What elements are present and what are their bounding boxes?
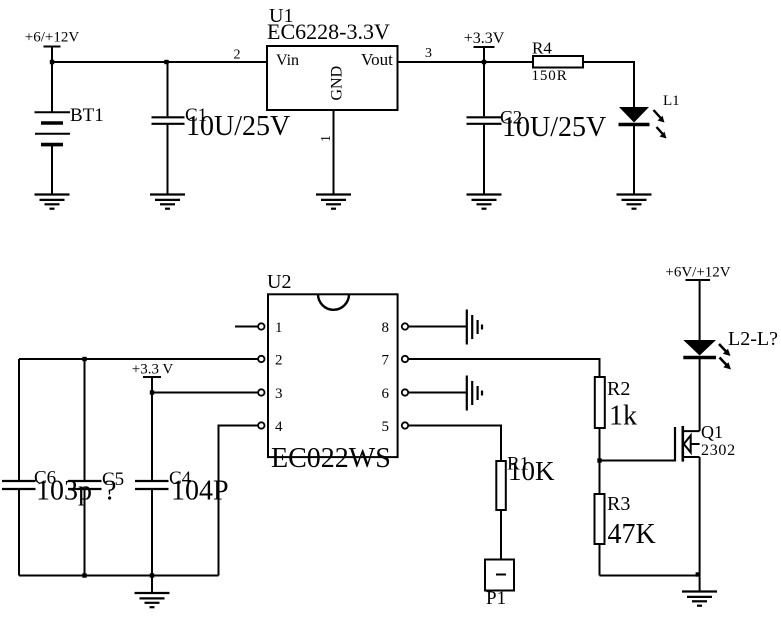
wire U1 GND pin <box>333 110 335 194</box>
ground (L1) <box>617 195 652 209</box>
svg-text:10U/25V: 10U/25V <box>186 111 290 142</box>
capacitor C5 <box>68 359 124 576</box>
IC U2 EC022WS <box>267 271 398 474</box>
pin 6 circle <box>402 389 408 395</box>
pin 1 circle <box>258 323 264 329</box>
wire pin1 stub <box>235 326 258 328</box>
wire gate <box>600 460 676 462</box>
svg-text:U2: U2 <box>267 271 291 293</box>
svg-text:GND: GND <box>329 66 346 101</box>
svg-text:10K: 10K <box>508 456 555 486</box>
wire pin5 to R1 <box>408 426 501 462</box>
svg-text:6: 6 <box>382 386 390 402</box>
svg-text:47K: 47K <box>608 519 656 550</box>
node bottom bus C4/gnd <box>150 573 154 577</box>
wire pin8 to ground <box>408 326 467 328</box>
node C1 junction <box>164 60 168 64</box>
pin 3 circle <box>258 389 264 395</box>
node battery junction <box>50 60 54 64</box>
power +3.3V (top) <box>464 30 505 62</box>
svg-text:+3.3 V: +3.3 V <box>132 362 174 378</box>
connector P1 <box>485 560 514 610</box>
node bottom bus C5 <box>82 573 86 577</box>
battery BT1 <box>35 62 104 194</box>
wire gnd stub bottom-left <box>151 576 153 594</box>
LED L2 <box>683 328 778 431</box>
wire bottom left bus <box>19 575 219 577</box>
pin 2 circle <box>258 356 264 362</box>
wire pin2 to left rail <box>19 358 258 360</box>
svg-text:5: 5 <box>382 419 390 435</box>
svg-text:R3: R3 <box>607 493 630 515</box>
svg-text:1: 1 <box>319 135 334 142</box>
wire R4 to LED corner <box>583 62 634 107</box>
capacitor C4 <box>135 393 229 576</box>
ground (pin8, sideways) <box>467 310 482 345</box>
node source/ground junction <box>696 572 700 576</box>
svg-text:1: 1 <box>275 320 283 336</box>
node +3.3V junction <box>482 60 486 64</box>
power +6/+12V <box>25 30 80 63</box>
capacitor C2 <box>467 62 607 194</box>
svg-text:+6V/+12V: +6V/+12V <box>665 265 730 281</box>
ground (C2) <box>467 195 502 209</box>
svg-text:Vout: Vout <box>361 50 393 69</box>
capacitor C1 <box>152 62 291 194</box>
svg-text:2: 2 <box>275 353 283 369</box>
wire bottom right bus <box>600 575 700 577</box>
resistor R2 <box>595 377 637 494</box>
pin 5 circle <box>402 422 408 428</box>
svg-text:P1: P1 <box>486 588 506 609</box>
svg-text:Q1: Q1 <box>701 422 723 442</box>
node gate junction <box>597 458 601 462</box>
pin 4 circle <box>258 422 264 428</box>
svg-text:2302: 2302 <box>701 442 736 459</box>
svg-text:+6/+12V: +6/+12V <box>25 30 80 46</box>
svg-text:3: 3 <box>425 46 432 61</box>
svg-text:4: 4 <box>275 419 283 435</box>
wire pin4 to rail <box>219 426 259 576</box>
wire Vout to R4 <box>398 61 534 63</box>
resistor R1 <box>496 454 555 560</box>
svg-text:EC6228-3.3V: EC6228-3.3V <box>267 19 390 44</box>
resistor R4 <box>532 39 584 85</box>
svg-text:150R: 150R <box>532 68 568 84</box>
ground (bottom left) <box>135 593 170 607</box>
svg-text:R2: R2 <box>607 378 630 400</box>
ground (C1) <box>150 195 185 209</box>
wire pin6 to ground <box>408 392 467 394</box>
svg-text:L2-L?: L2-L? <box>728 328 778 350</box>
svg-text:3: 3 <box>275 386 283 402</box>
capacitor C6 <box>2 359 92 576</box>
svg-text:BT1: BT1 <box>70 105 104 126</box>
svg-text:10U/25V: 10U/25V <box>502 112 606 143</box>
ground (bottom right) <box>682 592 717 606</box>
svg-text:?: ? <box>104 476 116 507</box>
ground (pin6, sideways) <box>467 376 482 411</box>
node +3.3V rail junction <box>150 390 154 394</box>
svg-text:2: 2 <box>234 48 241 63</box>
transistor Q1 (NMOS 2302) <box>675 422 736 576</box>
wire pin3 to +3.3V <box>152 392 258 394</box>
resistor R3 <box>595 493 656 576</box>
power +6V/+12V <box>665 265 730 341</box>
svg-text:7: 7 <box>382 353 390 369</box>
wire gnd stub bottom-right <box>699 576 701 592</box>
pin 8 circle <box>402 323 408 329</box>
wire pin7 to R2 <box>408 359 600 377</box>
svg-text:EC022WS: EC022WS <box>271 443 391 474</box>
ground (U1) <box>316 195 351 209</box>
power +3.3V (bottom) <box>132 362 174 393</box>
wire top main <box>52 61 267 63</box>
pin 7 circle <box>402 356 408 362</box>
svg-text:Vin: Vin <box>276 52 299 69</box>
svg-text:1k: 1k <box>609 401 637 432</box>
svg-text:R4: R4 <box>532 39 552 58</box>
ground (battery) <box>35 195 70 209</box>
LED L1 <box>619 93 680 194</box>
regulator U1 EC6228-3.3V <box>267 5 398 110</box>
svg-text:104P: 104P <box>171 476 229 507</box>
svg-text:+3.3V: +3.3V <box>464 30 505 47</box>
svg-text:L1: L1 <box>663 93 680 109</box>
node C5 rail junction <box>82 357 86 361</box>
svg-text:8: 8 <box>382 320 390 336</box>
